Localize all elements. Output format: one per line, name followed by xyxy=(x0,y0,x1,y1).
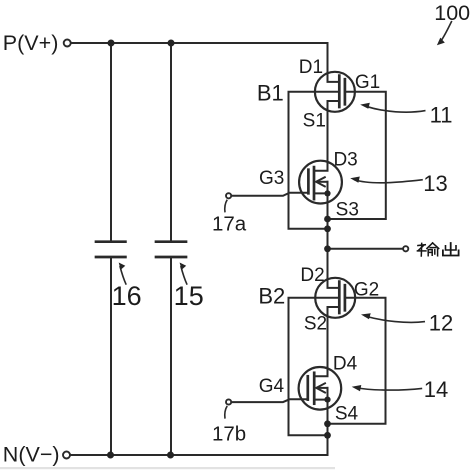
svg-text:S4: S4 xyxy=(335,403,359,424)
svg-text:S3: S3 xyxy=(336,200,359,221)
svg-text:G3: G3 xyxy=(259,168,284,189)
svg-text:G2: G2 xyxy=(354,279,379,300)
svg-text:13: 13 xyxy=(423,171,447,196)
svg-text:D4: D4 xyxy=(333,353,358,374)
svg-text:D2: D2 xyxy=(300,265,324,286)
svg-text:S1: S1 xyxy=(303,111,326,132)
svg-text:B1: B1 xyxy=(257,80,284,105)
svg-text:P(V+): P(V+) xyxy=(3,31,59,55)
svg-text:100: 100 xyxy=(434,1,470,25)
svg-text:11: 11 xyxy=(430,102,453,127)
svg-text:B2: B2 xyxy=(258,284,285,309)
svg-text:D1: D1 xyxy=(299,57,323,78)
svg-text:G1: G1 xyxy=(355,72,380,93)
svg-text:N(V−): N(V−) xyxy=(3,442,60,466)
svg-text:15: 15 xyxy=(174,281,204,311)
svg-text:17a: 17a xyxy=(212,212,247,235)
svg-text:S2: S2 xyxy=(304,313,327,334)
svg-text:D3: D3 xyxy=(333,149,357,170)
svg-text:16: 16 xyxy=(112,281,142,311)
svg-text:G4: G4 xyxy=(259,376,285,397)
svg-text:17b: 17b xyxy=(212,423,246,446)
svg-text:12: 12 xyxy=(429,311,453,336)
svg-text:14: 14 xyxy=(424,377,448,402)
